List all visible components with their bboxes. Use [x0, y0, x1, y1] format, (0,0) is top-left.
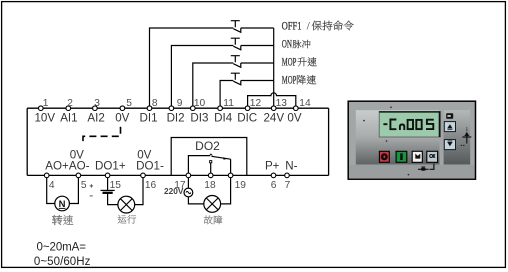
pushbutton switch S1 OFF1: [231, 21, 241, 33]
svg-text:DI4: DI4: [214, 112, 233, 125]
svg-text:4: 4: [49, 180, 55, 191]
svg-text:0V: 0V: [115, 112, 129, 125]
svg-text:1: 1: [43, 98, 49, 109]
svg-text:19: 19: [235, 180, 247, 191]
button M (white): [412, 151, 422, 162]
svg-text:DO1+: DO1+: [95, 159, 126, 172]
svg-text:DI3: DI3: [190, 112, 208, 125]
terminal 5: [120, 106, 125, 111]
pushbutton switch S4 MOP down: [231, 73, 241, 85]
svg-text:DO2: DO2: [195, 139, 220, 153]
svg-text:AO+: AO+: [45, 159, 69, 172]
meter N (speed indicator): [55, 196, 70, 211]
terminal 15 bottom: [105, 173, 110, 178]
display icon: [446, 113, 453, 118]
terminal 18 bottom: [208, 173, 213, 178]
wire: terminal 15 down: [107, 178, 109, 190]
wire: DIC(12) to 0V(14) link with hop over 24V rail: [248, 93, 296, 107]
wire: terminal 17 down to AC source: [187, 178, 189, 189]
terminal 12: [245, 106, 250, 111]
svg-text:DI1: DI1: [139, 112, 157, 125]
svg-text:OFF1: OFF1: [282, 21, 302, 33]
terminal 13: [271, 106, 276, 111]
svg-text:0~20mA=: 0~20mA=: [37, 242, 87, 254]
svg-text:6: 6: [271, 180, 277, 191]
svg-text:MOP: MOP: [282, 57, 297, 69]
svg-text:7: 7: [285, 180, 291, 191]
button I (green run): [396, 151, 407, 162]
pushbutton switch S2 ON: [231, 38, 241, 50]
svg-text:AO-: AO-: [69, 159, 90, 172]
wire: DI1 terminal to switch S1 OFF1: [150, 28, 234, 108]
button O (red stop): [379, 151, 389, 162]
svg-text:AI1: AI1: [60, 112, 77, 125]
jog icon: [418, 164, 434, 171]
terminal 16 bottom: [141, 173, 146, 178]
terminal 5 bottom: [76, 173, 81, 178]
terminal 17 bottom: [186, 173, 191, 178]
wire: switch S3 MOP up to 24V rail: [241, 62, 274, 64]
terminal 8: [147, 106, 152, 111]
svg-text:12: 12: [250, 98, 262, 109]
svg-text:0~50/60Hz: 0~50/60Hz: [34, 256, 91, 268]
svg-text:DO1-: DO1-: [136, 159, 164, 172]
wire: battery to run lamp: [108, 194, 118, 205]
label 运行: [118, 215, 127, 224]
wire: fault lamp to terminal 19: [221, 178, 231, 204]
lamp 运行 (run): [118, 196, 135, 213]
DO2 box: [171, 138, 247, 176]
button OK (gray): [427, 151, 438, 162]
svg-text:ON: ON: [282, 39, 293, 51]
wire: DI4 terminal to switch S4 MOP down: [220, 81, 233, 109]
button down arrow: [444, 140, 455, 150]
terminal 19 bottom: [228, 173, 233, 178]
svg-text:DIC: DIC: [237, 112, 257, 125]
svg-text:13: 13: [276, 98, 288, 109]
svg-text:14: 14: [299, 98, 311, 109]
svg-text:5: 5: [81, 180, 87, 191]
terminal 4 bottom: [44, 173, 49, 178]
LCD text -Cn006: [383, 120, 433, 131]
wire: dashed 0V link from terminal 5 to AO- 0V: [83, 127, 121, 145]
svg-text:3: 3: [94, 98, 100, 109]
terminal 9: [169, 106, 174, 111]
svg-text:DI2: DI2: [167, 112, 185, 125]
svg-text:P+: P+: [265, 159, 280, 172]
wire: AC source to fault lamp: [188, 197, 203, 204]
wire: switch S1 OFF1 to 24V rail: [241, 27, 274, 29]
svg-text:15: 15: [110, 180, 122, 191]
svg-text:5: 5: [126, 98, 132, 109]
panel screw dots: [363, 120, 365, 122]
terminal 10: [191, 106, 196, 111]
lamp 故障 (fault): [204, 196, 221, 213]
wire: terminal 4 to meter: [47, 178, 55, 204]
relay contact DO2: [188, 156, 210, 174]
svg-text:0V: 0V: [287, 112, 301, 125]
svg-text:AI2: AI2: [87, 112, 104, 125]
wire: inverter outline bottom bus: [27, 174, 328, 176]
wire: DI3 terminal to switch S3 MOP up: [193, 63, 234, 108]
wire: switch S4 MOP down to 24V rail: [241, 80, 274, 82]
wire: inverter outline left side: [26, 108, 28, 175]
wire: DI2 terminal to switch S2 ON: [171, 46, 233, 109]
svg-text:220V: 220V: [164, 186, 184, 196]
terminal 3: [93, 106, 98, 111]
wire: meter to terminal 5: [69, 178, 78, 204]
AC source 220V: [184, 188, 193, 197]
label 故障: [204, 216, 213, 225]
button up arrow: [444, 122, 455, 132]
pushbutton switch S3 MOP up: [231, 56, 241, 68]
terminal 2: [66, 106, 71, 111]
wire: inverter outline top bus: [27, 107, 328, 109]
terminal 11: [218, 106, 223, 111]
terminal 14: [294, 106, 299, 111]
wire: inverter outline right side: [328, 108, 330, 175]
terminal 7 bottom: [285, 173, 290, 178]
svg-text:10: 10: [194, 98, 206, 109]
wire: run lamp to terminal 16: [135, 178, 143, 205]
svg-text:24V: 24V: [263, 112, 284, 125]
svg-text:10V: 10V: [34, 112, 55, 125]
terminal 1: [39, 106, 44, 111]
svg-text:16: 16: [145, 180, 157, 191]
increase arrow icon: [461, 128, 472, 146]
svg-text:2: 2: [67, 98, 73, 109]
battery supply for DO1: [90, 184, 115, 196]
wire: switch S2 ON to 24V rail: [241, 45, 274, 47]
svg-text:11: 11: [223, 98, 234, 109]
label 转速: [52, 215, 62, 225]
svg-text:8: 8: [152, 98, 158, 109]
wire: common 24V rail down to terminal 13: [273, 28, 275, 106]
LCD display: [379, 111, 440, 137]
svg-text:9: 9: [177, 98, 183, 109]
terminal 6 bottom: [271, 173, 276, 178]
svg-text:18: 18: [204, 180, 216, 191]
svg-text:MOP: MOP: [282, 75, 297, 87]
svg-text:N-: N-: [285, 159, 297, 172]
